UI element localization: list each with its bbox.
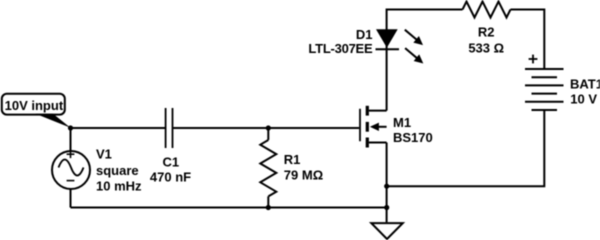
- svg-text:square: square: [96, 163, 139, 178]
- svg-text:V1: V1: [96, 146, 112, 161]
- svg-text:10 mHz: 10 mHz: [96, 178, 142, 193]
- svg-text:10 V: 10 V: [570, 91, 597, 106]
- svg-text:BAT1: BAT1: [570, 76, 600, 91]
- svg-text:D1: D1: [356, 27, 373, 42]
- svg-text:79 MΩ: 79 MΩ: [284, 168, 323, 183]
- svg-text:C1: C1: [162, 155, 179, 170]
- svg-text:R2: R2: [478, 24, 495, 39]
- svg-text:470 nF: 470 nF: [150, 170, 191, 185]
- svg-text:10V input: 10V input: [5, 98, 64, 113]
- svg-text:533 Ω: 533 Ω: [468, 41, 504, 56]
- svg-text:BS170: BS170: [393, 130, 433, 145]
- svg-text:R1: R1: [284, 152, 301, 167]
- svg-text:M1: M1: [393, 115, 411, 130]
- svg-text:LTL-307EE: LTL-307EE: [308, 41, 373, 56]
